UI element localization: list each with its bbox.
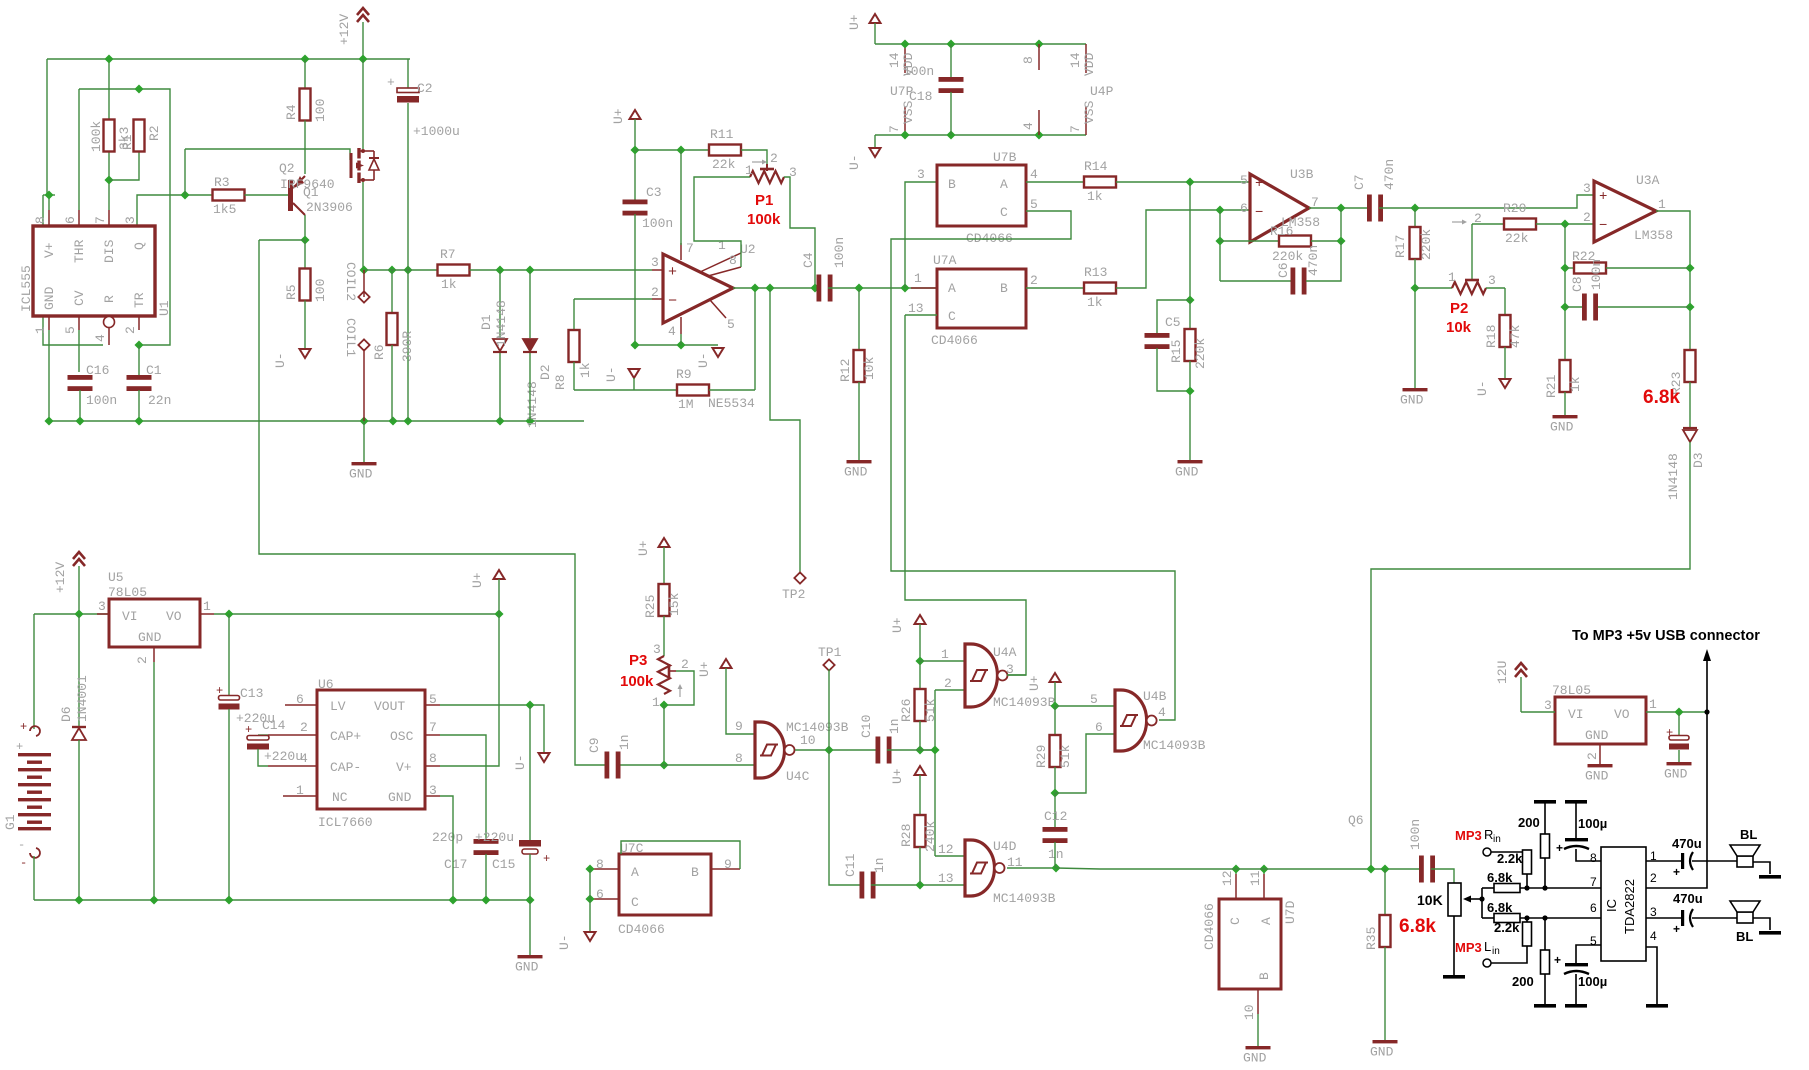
potentiometer P3 100k xyxy=(620,642,694,710)
capacitor C4 xyxy=(801,237,847,302)
svg-text:NE5534: NE5534 xyxy=(708,396,755,411)
svg-text:4: 4 xyxy=(93,334,108,342)
svg-text:R9: R9 xyxy=(676,367,692,382)
supply U+ flag R28 xyxy=(890,766,926,784)
wire to TDA pin6 xyxy=(1545,917,1601,919)
wire inverting network xyxy=(1564,224,1566,360)
supply V- flag R8 node xyxy=(604,366,640,382)
svg-text:220k: 220k xyxy=(1193,338,1208,369)
svg-text:NC: NC xyxy=(332,790,348,805)
supply U+ flag 5V rail xyxy=(470,570,505,588)
svg-text:R3: R3 xyxy=(214,175,230,190)
svg-text:3: 3 xyxy=(1583,181,1591,196)
wire V+ pin to 5V xyxy=(440,614,499,766)
resistor R6 xyxy=(372,270,415,362)
svg-text:C14: C14 xyxy=(262,718,286,733)
svg-text:7: 7 xyxy=(93,216,108,224)
svg-text:+: + xyxy=(245,723,252,737)
svg-text:5: 5 xyxy=(727,317,735,332)
junction xyxy=(1685,263,1694,272)
connector MP3 L in xyxy=(1455,939,1500,967)
svg-text:390R: 390R xyxy=(400,331,415,362)
svg-text:470u: 470u xyxy=(1673,891,1703,906)
wire U4A pin2 / U4D pin12 column xyxy=(934,690,936,856)
svg-text:+1000u: +1000u xyxy=(413,124,460,139)
junction xyxy=(1704,709,1709,714)
resistor R12 xyxy=(838,288,877,382)
svg-text:2: 2 xyxy=(770,151,778,166)
svg-text:D2: D2 xyxy=(538,364,553,380)
svg-text:OSC: OSC xyxy=(390,729,414,744)
svg-text:6.8k: 6.8k xyxy=(1399,916,1436,937)
svg-text:R12: R12 xyxy=(838,359,853,382)
resistor 2.2k left xyxy=(1491,920,1532,963)
junction xyxy=(810,283,819,292)
svg-text:7: 7 xyxy=(429,720,437,735)
junction xyxy=(525,895,534,904)
svg-text:3: 3 xyxy=(917,167,925,182)
svg-text:VI: VI xyxy=(1568,707,1584,722)
speaker BL right xyxy=(1730,827,1781,879)
svg-text:TP1: TP1 xyxy=(818,645,842,660)
svg-text:4: 4 xyxy=(1021,122,1036,130)
IC U7D CD4066 switch xyxy=(1202,870,1298,1020)
svg-text:4: 4 xyxy=(668,324,676,339)
junction xyxy=(1259,864,1268,873)
svg-text:MP3: MP3 xyxy=(1455,828,1482,843)
node U4A pin1 xyxy=(915,656,924,665)
wire C7 to U3A xyxy=(1379,195,1594,208)
supply U+ flag C3 xyxy=(611,108,641,124)
junction xyxy=(359,416,368,425)
junction xyxy=(765,283,774,292)
node D2 xyxy=(525,265,534,274)
svg-text:BL: BL xyxy=(1740,827,1757,842)
svg-text:200: 200 xyxy=(1518,815,1540,830)
junction xyxy=(75,416,84,425)
resistor R4 xyxy=(284,59,328,122)
wire +5V USB feed xyxy=(1646,649,1711,888)
svg-text:+: + xyxy=(1556,841,1563,855)
svg-text:MP3: MP3 xyxy=(1455,940,1482,955)
junction xyxy=(134,416,143,425)
node coil1 xyxy=(359,265,368,274)
svg-text:1: 1 xyxy=(745,163,753,178)
svg-text:R29: R29 xyxy=(1034,745,1049,768)
resistor R21 xyxy=(1544,360,1583,398)
supply V- flag ICL7660 xyxy=(513,753,550,770)
supply U+ flag R25 xyxy=(636,538,670,556)
svg-text:+: + xyxy=(1673,922,1680,936)
svg-text:VDD: VDD xyxy=(1082,52,1097,76)
svg-text:U7B: U7B xyxy=(993,150,1017,165)
svg-text:100k: 100k xyxy=(747,211,781,228)
svg-text:2: 2 xyxy=(944,676,952,691)
wire TP1 to C11 xyxy=(829,669,861,885)
ground xyxy=(1243,1046,1271,1066)
node P2 xyxy=(1410,283,1419,292)
svg-text:4: 4 xyxy=(1158,705,1166,720)
svg-text:THR: THR xyxy=(72,239,87,263)
capacitor C18 xyxy=(939,44,964,135)
svg-text:1: 1 xyxy=(914,271,922,286)
wire audio bus to amplifier xyxy=(1056,868,1421,869)
svg-text:1: 1 xyxy=(718,238,726,253)
wire P1 pin1 to comp pins xyxy=(694,177,750,267)
svg-text:LV: LV xyxy=(330,699,346,714)
supply U+ flag R29 xyxy=(1027,673,1061,691)
transistor Q2 IRF9640 p-mosfet xyxy=(351,148,379,183)
wire bias divider xyxy=(1189,182,1191,300)
gate U4D MC14093B xyxy=(965,839,1056,906)
svg-text:1N4148: 1N4148 xyxy=(525,381,540,428)
wire left rail to 555 pin8 xyxy=(46,59,48,195)
IC U7B CD4066 switch xyxy=(917,150,1038,246)
svg-text:100n: 100n xyxy=(1589,259,1604,290)
svg-text:+220u: +220u xyxy=(264,749,303,764)
svg-text:CAP+: CAP+ xyxy=(330,729,361,744)
junction xyxy=(481,895,490,904)
svg-text:B: B xyxy=(1257,972,1272,980)
capacitor 470u right out xyxy=(1646,836,1702,879)
svg-text:COIL2: COIL2 xyxy=(343,262,358,301)
junction xyxy=(854,283,863,292)
testpoint TP1 xyxy=(818,645,842,671)
wire C9 to U4C pin8 xyxy=(664,764,755,766)
supply +12V flag top xyxy=(337,8,369,45)
wire RC1 node link xyxy=(920,749,935,751)
svg-text:5: 5 xyxy=(1090,692,1098,707)
svg-text:1N4148: 1N4148 xyxy=(494,300,509,347)
pin COIL1 connection xyxy=(343,262,370,303)
svg-text:D3: D3 xyxy=(1691,452,1706,468)
svg-text:2: 2 xyxy=(135,656,150,664)
svg-text:10: 10 xyxy=(800,733,816,748)
svg-text:51k: 51k xyxy=(923,698,938,722)
ground xyxy=(349,462,377,482)
svg-text:1: 1 xyxy=(941,647,949,662)
node U3B+ bias xyxy=(1185,177,1194,186)
resistor R5 xyxy=(284,240,328,302)
svg-text:C17: C17 xyxy=(444,857,467,872)
wire U4D output xyxy=(1007,867,1056,869)
svg-text:U+: U+ xyxy=(636,540,651,556)
svg-text:1k5: 1k5 xyxy=(213,202,236,217)
supply U+ flag R26 xyxy=(890,615,926,633)
resistor 200 left xyxy=(1512,950,1556,1008)
svg-text:−: − xyxy=(1599,218,1607,234)
resistor R1 xyxy=(89,120,135,153)
svg-text:12: 12 xyxy=(1220,870,1235,886)
svg-text:A: A xyxy=(1259,917,1274,925)
svg-text:+12V: +12V xyxy=(53,562,68,593)
connector MP3 R in xyxy=(1455,827,1501,856)
junction xyxy=(946,130,955,139)
node R1-R2 xyxy=(104,175,113,184)
capacitor 470u left out xyxy=(1646,891,1703,936)
svg-text:U4D: U4D xyxy=(993,839,1017,854)
svg-text:11: 11 xyxy=(1248,870,1263,886)
svg-text:13: 13 xyxy=(908,301,924,316)
junction xyxy=(1410,203,1419,212)
svg-text:4: 4 xyxy=(1030,167,1038,182)
svg-text:D6: D6 xyxy=(59,706,74,722)
svg-text:22k: 22k xyxy=(1505,231,1529,246)
svg-text:U+: U+ xyxy=(470,572,485,588)
svg-text:in: in xyxy=(1493,834,1501,845)
svg-text:1: 1 xyxy=(1448,270,1456,285)
node C12 top xyxy=(1050,788,1059,797)
svg-text:100k: 100k xyxy=(89,121,104,152)
svg-text:6.8k: 6.8k xyxy=(1643,387,1680,408)
svg-text:GND: GND xyxy=(1370,1045,1394,1060)
svg-text:R26: R26 xyxy=(899,699,914,722)
svg-text:5: 5 xyxy=(1590,934,1597,948)
svg-text:+: + xyxy=(1255,176,1263,192)
svg-text:8: 8 xyxy=(1590,851,1597,865)
wire 555 pin3 output to R3 xyxy=(137,195,213,227)
wire negative ground rail xyxy=(34,899,530,901)
svg-text:C18: C18 xyxy=(909,89,932,104)
svg-text:R14: R14 xyxy=(1084,159,1108,174)
svg-text:U7D: U7D xyxy=(1283,900,1298,924)
svg-text:U-: U- xyxy=(557,934,572,950)
resistor R8 xyxy=(553,299,593,390)
svg-text:R21: R21 xyxy=(1544,374,1559,398)
supply U+ flag U4C pin9 xyxy=(697,659,732,677)
node V+ xyxy=(630,145,639,154)
svg-text:U+: U+ xyxy=(847,14,862,30)
junction xyxy=(525,416,534,425)
node RC1 xyxy=(915,745,924,754)
node pin8 xyxy=(44,190,53,199)
svg-text:U1: U1 xyxy=(157,300,172,316)
svg-text:12U: 12U xyxy=(1495,661,1510,684)
svg-text:220k: 220k xyxy=(1272,249,1303,264)
wire U4A pin1 xyxy=(920,660,965,662)
wire U7A pin13 control xyxy=(905,314,937,316)
capacitor C15 electrolytic xyxy=(475,705,550,872)
svg-text:+: + xyxy=(1673,865,1680,879)
wire U3B output xyxy=(1309,207,1371,209)
svg-text:R: R xyxy=(102,295,117,303)
svg-text:U-: U- xyxy=(604,366,619,382)
svg-text:+: + xyxy=(1666,726,1673,740)
wire THR/TR loop xyxy=(79,89,170,345)
svg-text:1n: 1n xyxy=(872,857,887,873)
gate U4C MC14093B xyxy=(755,720,849,784)
junction xyxy=(1215,236,1224,245)
svg-text:VO: VO xyxy=(166,609,182,624)
svg-text:Q2: Q2 xyxy=(279,161,295,176)
svg-text:1n: 1n xyxy=(617,734,632,750)
wire D3 to audio out node xyxy=(1371,442,1690,869)
capacitor C17 xyxy=(432,830,499,872)
svg-text:100n: 100n xyxy=(642,216,673,231)
resistor R23 xyxy=(1643,350,1696,408)
junction xyxy=(74,609,83,618)
svg-text:2: 2 xyxy=(681,657,689,672)
resistor R26 xyxy=(899,661,938,722)
svg-text:3: 3 xyxy=(1544,698,1552,713)
svg-text:CD4066: CD4066 xyxy=(931,333,978,348)
junction xyxy=(44,416,53,425)
node R35 xyxy=(1380,864,1389,873)
svg-text:GND: GND xyxy=(844,465,868,480)
svg-text:C15: C15 xyxy=(492,857,515,872)
svg-text:9: 9 xyxy=(735,719,743,734)
wire U2 pin2 net xyxy=(574,298,652,300)
resistor R9 xyxy=(676,367,709,412)
capacitor C7 xyxy=(1352,159,1397,222)
svg-text:8: 8 xyxy=(735,751,743,766)
junction xyxy=(1560,219,1569,228)
junction xyxy=(1336,236,1345,245)
svg-text:−: − xyxy=(668,293,677,310)
junction xyxy=(1524,885,1529,890)
wire VOUT negative rail xyxy=(440,705,544,753)
svg-text:U-: U- xyxy=(513,754,528,770)
svg-text:U3B: U3B xyxy=(1290,167,1314,182)
svg-text:GND: GND xyxy=(1400,393,1424,408)
svg-text:U+: U+ xyxy=(697,661,712,677)
ground xyxy=(1175,460,1203,480)
svg-text:+: + xyxy=(668,264,677,281)
svg-text:6.8k: 6.8k xyxy=(1487,900,1513,915)
svg-text:R16: R16 xyxy=(1270,224,1293,239)
svg-text:U4C: U4C xyxy=(786,769,810,784)
svg-text:8: 8 xyxy=(729,253,737,268)
svg-text:1N4001: 1N4001 xyxy=(75,675,90,722)
supply 12V flag second regulator xyxy=(1495,661,1527,684)
svg-text:C2: C2 xyxy=(417,81,433,96)
node TP1/out xyxy=(824,745,833,754)
svg-text:3k3: 3k3 xyxy=(117,127,132,150)
ground xyxy=(1400,388,1428,408)
svg-text:MC14093B: MC14093B xyxy=(786,720,849,735)
resistor R29 xyxy=(1034,706,1073,768)
svg-text:6.8k: 6.8k xyxy=(1487,870,1513,885)
power block U4P xyxy=(1021,44,1114,135)
svg-text:CD4066: CD4066 xyxy=(618,922,665,937)
svg-text:Q: Q xyxy=(132,242,147,250)
wire U7D pin10 gnd xyxy=(1257,1014,1259,1046)
svg-text:P3: P3 xyxy=(629,652,647,669)
svg-text:TP2: TP2 xyxy=(782,587,805,602)
wire U7B pin5 control xyxy=(891,211,1175,720)
IC TDA2822 amplifier xyxy=(1590,847,1657,961)
wire pin4 ground xyxy=(1646,947,1657,1004)
node wiper xyxy=(1479,896,1484,901)
svg-text:U-: U- xyxy=(847,154,862,170)
resistor R7 xyxy=(438,247,470,292)
svg-text:C1: C1 xyxy=(146,363,162,378)
svg-text:1: 1 xyxy=(33,326,48,334)
junction xyxy=(224,609,233,618)
svg-text:MC14093B: MC14093B xyxy=(993,891,1056,906)
resistor R35 xyxy=(1364,869,1436,950)
svg-text:+: + xyxy=(20,720,27,734)
svg-text:2.2k: 2.2k xyxy=(1494,920,1520,935)
ground xyxy=(844,460,872,480)
svg-text:CV: CV xyxy=(72,290,87,306)
wire reset loop xyxy=(43,195,103,345)
IC U7C CD4066 switch xyxy=(590,841,740,937)
svg-text:2N3906: 2N3906 xyxy=(306,200,353,215)
junction xyxy=(1034,39,1043,48)
svg-text:C8: C8 xyxy=(1570,276,1585,292)
resistor R22 xyxy=(1565,249,1690,274)
svg-text:6: 6 xyxy=(1095,720,1103,735)
svg-text:C10: C10 xyxy=(859,715,874,738)
svg-text:+: + xyxy=(216,684,223,698)
svg-text:U4P: U4P xyxy=(1090,84,1114,99)
svg-text:100k: 100k xyxy=(620,673,654,690)
svg-text:TR: TR xyxy=(132,292,147,308)
svg-text:470n: 470n xyxy=(1306,245,1321,276)
supply V- flag U7C xyxy=(557,932,596,950)
resistor R11 xyxy=(709,127,741,172)
svg-text:2.2k: 2.2k xyxy=(1497,851,1523,866)
wire GND stub lower xyxy=(529,900,531,955)
junction xyxy=(585,894,594,903)
junction xyxy=(930,745,939,754)
diode D2 1N4148 xyxy=(523,270,553,428)
svg-text:100n: 100n xyxy=(832,237,847,268)
svg-text:10k: 10k xyxy=(862,356,877,380)
wire pin5 to C16 xyxy=(78,330,80,372)
svg-text:R4: R4 xyxy=(284,104,299,120)
svg-text:1: 1 xyxy=(652,695,660,710)
wire wiper split xyxy=(1481,888,1483,918)
supply V- flag under U2 xyxy=(696,348,724,368)
svg-text:2: 2 xyxy=(1650,871,1657,885)
wire U4A output up xyxy=(1007,674,1026,676)
svg-text:COIL1: COIL1 xyxy=(343,318,358,357)
svg-text:−: − xyxy=(1255,205,1263,221)
wire 5V rail xyxy=(214,613,499,615)
svg-text:A: A xyxy=(948,281,956,296)
resistor R25 xyxy=(643,547,682,618)
svg-text:51k: 51k xyxy=(1058,744,1073,768)
wire OSC to C17 xyxy=(440,735,486,841)
svg-text:U-: U- xyxy=(273,352,288,368)
diode D6 1N4001 xyxy=(59,614,90,900)
svg-text:2: 2 xyxy=(123,326,138,334)
op-amp U3A LM358 xyxy=(1583,173,1673,243)
svg-text:P1: P1 xyxy=(755,192,773,209)
capacitor C16 xyxy=(68,363,118,408)
diode D1 1N4148 xyxy=(479,270,509,352)
svg-text:R25: R25 xyxy=(643,595,658,618)
svg-text:C7: C7 xyxy=(1352,174,1367,190)
svg-text:C12: C12 xyxy=(1044,809,1067,824)
svg-text:1k: 1k xyxy=(1087,295,1103,310)
junction xyxy=(495,416,504,425)
svg-text:C13: C13 xyxy=(240,686,263,701)
svg-text:C16: C16 xyxy=(86,363,109,378)
wire U7B pin3 feed xyxy=(905,182,937,288)
node Vout xyxy=(525,700,534,709)
wire GND stub xyxy=(363,421,365,462)
svg-text:GND: GND xyxy=(1243,1051,1267,1066)
node U4B pin5 xyxy=(1050,701,1059,710)
svg-text:C9: C9 xyxy=(587,737,602,753)
junction xyxy=(585,864,594,873)
svg-text:MC14093B: MC14093B xyxy=(1143,738,1206,753)
capacitor C9 xyxy=(587,734,664,778)
svg-text:U+: U+ xyxy=(890,768,905,784)
